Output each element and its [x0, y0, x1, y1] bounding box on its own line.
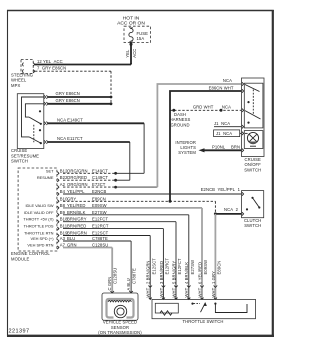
- svg-text:STEERING: STEERING: [11, 72, 33, 77]
- node junction GRD WHT right: [220, 109, 223, 112]
- svg-text:GROUND: GROUND: [170, 122, 189, 127]
- indicator lamp in cruise on/off switch: [244, 131, 263, 149]
- ECM pin A3: [57, 236, 65, 243]
- cruise on/off pin 6: [242, 149, 244, 152]
- svg-text:GRD WHT: GRD WHT: [193, 104, 214, 109]
- svg-text:VEH SPD RTN: VEH SPD RTN: [27, 243, 53, 248]
- svg-text:C149CT: C149CT: [92, 175, 108, 180]
- svg-text:221397: 221397: [9, 329, 30, 335]
- fuse block dashed box: [124, 26, 151, 42]
- svg-text:A3: A3: [60, 236, 66, 241]
- svg-text:SET: SET: [46, 168, 54, 173]
- wire 12 YEL ACC: [35, 59, 131, 65]
- svg-text:E09SW: E09SW: [92, 203, 107, 208]
- wire NCA E149CT vertical to ECM row 1: [143, 123, 145, 173]
- svg-text:VEHICLE SPEED: VEHICLE SPEED: [103, 320, 137, 325]
- svg-text:12 YEL ACC: 12 YEL ACC: [37, 59, 63, 64]
- cruise switch pin 1: [44, 95, 48, 98]
- ECM pin B11: [57, 224, 67, 231]
- wire GRY E86CN vertical (dashed): [110, 71, 112, 104]
- throttle wire 2 connector: [162, 286, 166, 288]
- wire BRN/BLK E27SW row 7: [63, 210, 189, 215]
- svg-text:2 BRN/GRN: 2 BRN/GRN: [146, 260, 151, 284]
- wire SET ORG/GRN E149CT row 1: [63, 168, 144, 173]
- svg-text:E12FCT: E12FCT: [92, 217, 108, 222]
- ECM pin A7: [57, 243, 65, 250]
- svg-text:THROTTLE POS: THROTTLE POS: [24, 224, 54, 229]
- ECM pin A2: [57, 182, 65, 189]
- svg-text:NCA 2: NCA 2: [224, 207, 239, 212]
- throttle switch box: [152, 299, 256, 324]
- wire GRN vertical to speed sensor: [111, 248, 113, 294]
- MPX internal connector arcs: [22, 63, 25, 73]
- wire YEL/RED E09SW vertical to throttle switch: [201, 208, 203, 300]
- svg-text:BRN/GRY: BRN/GRY: [67, 217, 87, 222]
- svg-text:E12RCT: E12RCT: [165, 258, 170, 275]
- svg-text:C128SU: C128SU: [92, 243, 108, 248]
- throttle wire 4 connector: [187, 286, 191, 288]
- svg-text:B4: B4: [60, 189, 66, 194]
- svg-text:WHT: WHT: [211, 287, 216, 297]
- node junction GRD WHT left: [172, 109, 175, 112]
- wire BRN/GRY E12FCT row 8: [63, 217, 176, 222]
- svg-text:SET/RESUME: SET/RESUME: [11, 153, 39, 158]
- svg-text:ENGINE CONTROL: ENGINE CONTROL: [11, 251, 50, 256]
- svg-text:THROTTLE SWITCH: THROTTLE SWITCH: [183, 319, 224, 324]
- clutch switch box: [242, 191, 264, 229]
- svg-text:ORG/GRN: ORG/GRN: [67, 182, 88, 187]
- ECM internal labels: [23, 168, 54, 247]
- wire BLU vertical to speed sensor: [130, 241, 132, 293]
- diagram number 221397: [9, 329, 30, 335]
- wire P10NL BRN with arrow to interior lights: [199, 144, 242, 152]
- wire ORG/GRN E73CT row 3: [63, 182, 157, 187]
- svg-text:BRN/RED: BRN/RED: [67, 224, 86, 229]
- cruise on/off pin 5: [242, 132, 244, 135]
- node junction V2 on row 5: [169, 200, 172, 203]
- ECM pin B22: [57, 175, 68, 182]
- wire BRN/BLK vertical to throttle switch: [188, 215, 190, 300]
- svg-text:4 BRN/BLK: 4 BRN/BLK: [184, 262, 189, 284]
- svg-text:ACC OR ON: ACC OR ON: [117, 21, 145, 27]
- svg-text:E2NCB: E2NCB: [92, 189, 106, 194]
- vehicle speed sensor coil and rotor: [107, 299, 134, 318]
- wire GRN C128SU row 12: [63, 243, 112, 248]
- svg-text:SENSOR: SENSOR: [111, 325, 129, 330]
- MPX pin 12: [33, 63, 35, 66]
- svg-text:IDLE VALID SW: IDLE VALID SW: [25, 203, 53, 208]
- svg-text:E12FCT: E12FCT: [177, 258, 182, 274]
- cruise on/off pin 3: [242, 109, 244, 112]
- wire 7 GRY E86CN (dashed): [35, 66, 111, 72]
- cruise on/off pin 4: [242, 125, 244, 128]
- throttle switch wire 1 BRN/GRN rotated labels: [146, 258, 157, 298]
- svg-text:A BLU: A BLU: [126, 278, 131, 290]
- cruise on/off switch box: [242, 78, 265, 172]
- clutch switch internal contacts: [246, 197, 261, 211]
- cruise on/off pin 1: [242, 82, 244, 85]
- svg-text:NCA E149CT: NCA E149CT: [57, 118, 83, 123]
- wire GRY E86CN pin1: [48, 91, 111, 97]
- page border frame: [7, 10, 274, 337]
- svg-text:GRN: GRN: [67, 243, 77, 248]
- svg-text:ACC: ACC: [132, 49, 137, 58]
- node junction GRY E86CN upper: [110, 96, 113, 99]
- label HOT IN ACC OR ON: [117, 16, 145, 27]
- wire BRN/GRY vertical to throttle switch: [175, 222, 177, 300]
- svg-text:MPX: MPX: [11, 83, 20, 88]
- svg-text:IDLE VALID OFF: IDLE VALID OFF: [24, 210, 54, 215]
- svg-text:C788TE: C788TE: [92, 236, 108, 241]
- svg-text:YEL/PPL: YEL/PPL: [67, 189, 85, 194]
- ECM pin B9: [57, 210, 65, 217]
- vehicle speed sensor wire A BLU labels: [126, 268, 136, 290]
- svg-text:WHT: WHT: [184, 287, 189, 297]
- ECM pin B19: [57, 231, 68, 238]
- wire E89CN dashed vertical to clutch branch: [214, 201, 216, 214]
- svg-text:5 BRN/GRY: 5 BRN/GRY: [171, 261, 176, 284]
- node junction row 1: [114, 172, 117, 175]
- svg-text:GRY E86CN: GRY E86CN: [56, 98, 80, 103]
- svg-text:SWITCH: SWITCH: [244, 223, 261, 228]
- wire NCA E117CT vertical to ECM row 2: [129, 142, 131, 180]
- svg-text:1 GRY: 1 GRY: [211, 271, 216, 284]
- splice J1 NCA boxed: [214, 130, 242, 137]
- svg-text:YEL: YEL: [125, 49, 130, 58]
- wire NCA E149CT: [48, 118, 144, 124]
- throttle switch internal resistor: [155, 303, 178, 315]
- wire YEL/PPL E2NCB row 4 to clutch switch: [63, 187, 242, 194]
- svg-text:E12SCT: E12SCT: [92, 231, 109, 236]
- svg-text:BRN/GRN: BRN/GRN: [67, 231, 87, 236]
- svg-text:3 BRN/RED: 3 BRN/RED: [159, 261, 164, 284]
- label interior lights system: [175, 140, 196, 155]
- ECM pin B18: [57, 217, 68, 224]
- svg-text:E09SW: E09SW: [203, 260, 208, 275]
- svg-text:(ON TRANSMISSION): (ON TRANSMISSION): [98, 330, 142, 335]
- throttle wire 6 connector: [214, 286, 218, 288]
- svg-text:E27SW: E27SW: [92, 210, 107, 215]
- fuse top pin: [130, 27, 133, 28]
- wire NCA E117CT: [48, 136, 130, 142]
- svg-text:BRN: BRN: [231, 144, 240, 149]
- svg-text:P10NL: P10NL: [212, 144, 226, 149]
- svg-text:THROTT +5V (X): THROTT +5V (X): [23, 217, 54, 222]
- ECM pin B4: [57, 189, 65, 196]
- svg-text:E86CN WHT: E86CN WHT: [209, 85, 234, 90]
- wire BRN/RED E12RCT row 9: [63, 224, 163, 229]
- throttle wire 1 connector: [148, 286, 152, 288]
- svg-text:C GRN: C GRN: [107, 277, 112, 291]
- svg-text:ORG/GRN: ORG/GRN: [67, 168, 88, 173]
- wire BRN/GRN vertical to throttle switch: [149, 236, 151, 300]
- wire J1 NCA upper: [214, 121, 242, 127]
- svg-text:BRN/BLK: BRN/BLK: [67, 210, 86, 215]
- svg-text:E149CT: E149CT: [92, 168, 108, 173]
- throttle switch wire 4 BRN/BLK rotated labels: [184, 260, 195, 298]
- svg-text:J1 NCA: J1 NCA: [214, 121, 230, 126]
- label dash harness ground: [170, 112, 191, 127]
- fuse bottom pin: [130, 42, 133, 43]
- wire NCA vertical V1 to cruise on/off pin 1: [157, 78, 241, 187]
- svg-text:NCA E117CT: NCA E117CT: [57, 136, 83, 141]
- engine control module dashed box: [11, 168, 57, 262]
- fuse F 15A: [129, 28, 148, 42]
- svg-text:VEH SPD (+): VEH SPD (+): [30, 236, 54, 241]
- wire GRY E86CN pin2: [48, 98, 111, 104]
- svg-text:B9: B9: [60, 210, 66, 215]
- svg-text:E12SCT: E12SCT: [151, 258, 156, 275]
- svg-text:WHT: WHT: [159, 287, 164, 297]
- svg-text:E2NCB YEL/PPL 1: E2NCB YEL/PPL 1: [201, 187, 241, 192]
- wire RESUME ORG/RED C149CT row 2: [63, 175, 130, 180]
- svg-text:GRY: GRY: [67, 196, 76, 201]
- svg-text:6 YEL/RED: 6 YEL/RED: [197, 262, 202, 284]
- wire YEL ACC vertical from fuse: [130, 43, 132, 65]
- svg-text:GRY E86CN: GRY E86CN: [56, 91, 80, 96]
- cruise switch pin 2: [44, 102, 48, 105]
- wire WHT 1 GRY E89CN vertical to throttle switch: [214, 214, 216, 300]
- svg-text:SYSTEM: SYSTEM: [178, 150, 196, 155]
- vehicle speed sensor box: [98, 293, 142, 335]
- cruise on/off switch internal contacts: [244, 83, 263, 128]
- VSS wire C connector: [110, 291, 114, 293]
- svg-text:WHT: WHT: [146, 287, 151, 297]
- svg-text:BLU: BLU: [67, 236, 75, 241]
- ECM pin B8: [57, 203, 65, 210]
- wire GRY E89CN row 5 (dashed): [63, 196, 215, 201]
- steering wheel MPX dashed connector box: [11, 60, 33, 88]
- throttle wire 3 connector: [174, 286, 178, 288]
- wire E86CN WHT V2 to cruise on/off pin 2: [170, 85, 242, 201]
- clutch switch pin 1: [242, 192, 244, 195]
- node junction row 2: [114, 179, 117, 182]
- svg-text:WHEEL: WHEEL: [11, 78, 27, 83]
- VSS wire A connector: [129, 291, 133, 293]
- throttle switch wire 2 BRN/RED rotated labels: [159, 258, 170, 298]
- cruise set/resume switch box: [11, 94, 44, 164]
- svg-text:E89CN: E89CN: [92, 196, 106, 201]
- svg-text:YEL/RED: YEL/RED: [67, 203, 85, 208]
- cruise set/resume switch internal contacts: [22, 97, 44, 144]
- ECM pin B10: [57, 196, 68, 203]
- svg-text:A2: A2: [60, 182, 66, 187]
- cruise switch pin 4: [44, 140, 48, 143]
- node junction row 3: [114, 186, 117, 189]
- svg-text:RESUME: RESUME: [37, 175, 54, 180]
- svg-text:SWITCH: SWITCH: [11, 159, 28, 164]
- svg-text:THROTTLE RTN: THROTTLE RTN: [24, 231, 54, 236]
- vehicle speed sensor wire C GRN labels: [107, 268, 117, 291]
- wire YEL/RED E09SW row 6: [63, 203, 202, 208]
- wire BRN/RED vertical to throttle switch: [162, 229, 164, 300]
- svg-text:C788TE: C788TE: [132, 268, 137, 284]
- throttle switch internal contacts: [191, 303, 247, 313]
- svg-text:CRUISE: CRUISE: [11, 148, 27, 153]
- svg-text:E89CN: E89CN: [217, 261, 222, 275]
- throttle switch wire 6 GRY rotated labels: [211, 261, 222, 298]
- cruise on/off pin 2: [242, 89, 244, 92]
- svg-text:HOT IN: HOT IN: [123, 16, 140, 22]
- throttle wire 5 connector: [200, 286, 204, 288]
- svg-text:NCA: NCA: [222, 105, 231, 110]
- throttle switch wire 3 BRN/GRY rotated labels: [171, 258, 182, 297]
- svg-text:7 GRY E86CN: 7 GRY E86CN: [37, 66, 66, 71]
- wire BLU C788TE row 11: [63, 236, 131, 241]
- svg-text:ORG/RED: ORG/RED: [67, 175, 87, 180]
- svg-text:NCA: NCA: [223, 78, 232, 83]
- throttle box pin chevrons: [149, 298, 217, 300]
- wire BRN/GRN E12SCT row 10: [63, 231, 150, 236]
- svg-text:E27SW: E27SW: [190, 260, 195, 275]
- node junction GRY E86CN lower: [110, 102, 113, 105]
- wire GRD WHT dashed ground line: [170, 104, 242, 110]
- svg-text:MODULE: MODULE: [11, 257, 30, 262]
- label YEL (rotated): [125, 49, 130, 58]
- svg-text:E12RCT: E12RCT: [92, 224, 109, 229]
- node junction NCA clutch branch: [214, 212, 217, 215]
- svg-text:C128SU: C128SU: [113, 268, 118, 284]
- label ACC (rotated): [132, 49, 137, 58]
- svg-text:WHT: WHT: [171, 287, 176, 297]
- fuse bottom connector ring: [130, 43, 132, 45]
- svg-text:WHT: WHT: [197, 287, 202, 297]
- svg-text:J1 NCA: J1 NCA: [216, 131, 232, 136]
- svg-text:15A: 15A: [137, 36, 145, 41]
- svg-text:E73CT: E73CT: [92, 182, 106, 187]
- cruise switch pin 3: [44, 122, 48, 125]
- MPX pin 7: [33, 70, 35, 73]
- svg-text:SWITCH: SWITCH: [244, 167, 261, 172]
- wire NCA 2 to clutch switch pin 2: [215, 207, 241, 214]
- throttle switch wire 5 YEL/RED rotated labels: [197, 260, 208, 298]
- ECM pin B12: [57, 168, 68, 175]
- clutch switch pin 2: [242, 212, 244, 215]
